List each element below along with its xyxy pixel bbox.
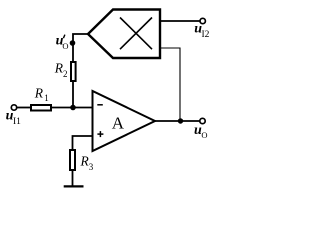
svg-text:O: O (62, 41, 68, 51)
wire R3 to ground (72, 170, 74, 186)
svg-text:I1: I1 (13, 117, 21, 127)
svg-text:O: O (201, 130, 207, 140)
svg-text:3: 3 (89, 162, 94, 172)
svg-text:R: R (34, 86, 44, 101)
node junction inverting input (70, 105, 76, 111)
output wire (154, 120, 200, 122)
op-amp A (93, 91, 156, 151)
terminal uI1 (11, 105, 16, 110)
terminal uI2 (200, 18, 205, 23)
wire (17, 107, 31, 109)
wire R2 bottom (72, 82, 74, 108)
wire (52, 107, 92, 109)
svg-text:1: 1 (44, 93, 49, 103)
node uO' dot (70, 40, 76, 46)
op-amp minus sign (97, 104, 103, 106)
wire non-inverting input (73, 136, 92, 150)
op-amp plus sign (97, 133, 103, 135)
svg-text:2: 2 (63, 69, 68, 79)
resistor R3 (70, 150, 75, 170)
multiplier M1 body (88, 10, 160, 59)
ground (64, 185, 84, 187)
wire to uI2 terminal (160, 20, 200, 22)
feedback wire from multiplier to output node (160, 48, 180, 121)
resistor R2 (71, 62, 76, 81)
wire R2 top to multiplier vertex (73, 34, 88, 61)
svg-text:A: A (112, 113, 125, 132)
resistor R1 (31, 105, 51, 111)
node junction output (178, 118, 183, 123)
multiplier X symbol (120, 18, 152, 50)
svg-text:I2: I2 (202, 30, 210, 40)
terminal uO (200, 118, 205, 123)
